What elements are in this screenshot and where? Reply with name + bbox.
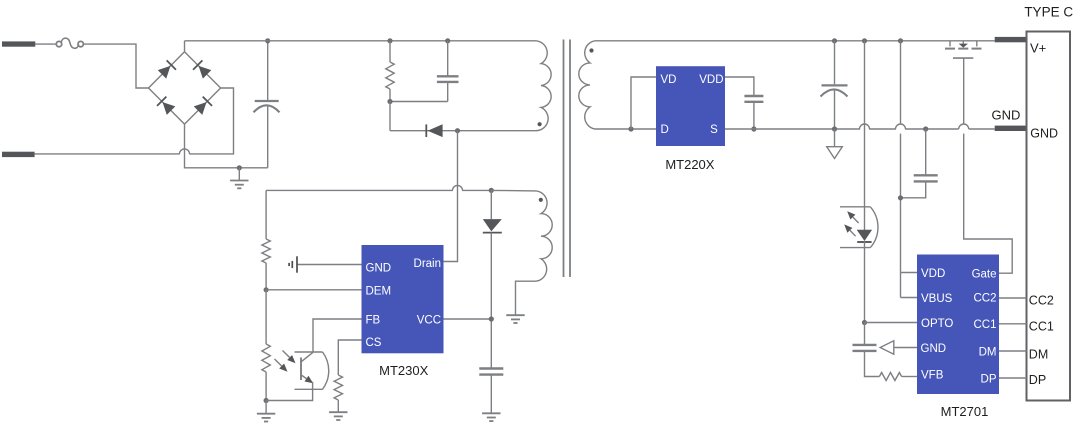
MOSFET Q1 output switch xyxy=(945,41,982,58)
wire optocoupler emitter to ground rail xyxy=(266,382,313,401)
svg-text:CC1: CC1 xyxy=(1029,320,1054,334)
wire bridge bottom to primary ground rail xyxy=(185,124,268,170)
TYPE C connector box xyxy=(1027,32,1071,401)
wire secondary + rail xyxy=(595,40,995,42)
ground G8 signal (open triangle left) xyxy=(880,341,917,355)
wire gate net xyxy=(964,58,1013,273)
wire CC1 xyxy=(999,323,1027,325)
wire CS pin to Rcs xyxy=(338,340,361,375)
resistor R3 DEM lower xyxy=(262,290,270,401)
wire V+ line to optocoupler LED xyxy=(862,38,867,230)
IC U1 MT230X xyxy=(362,245,444,353)
wire aux-DEM line with hop over drain riser xyxy=(266,185,536,193)
svg-text:VD: VD xyxy=(661,74,677,86)
svg-text:GND: GND xyxy=(366,263,392,275)
svg-text:TYPE C: TYPE C xyxy=(1024,4,1073,19)
transformer T1 auxiliary winding xyxy=(536,191,552,281)
svg-text:MT220X: MT220X xyxy=(665,157,714,172)
resistor R5 VFB xyxy=(879,373,917,381)
ground G2 DEM divider xyxy=(257,398,275,422)
capacitor C3 VCC xyxy=(479,369,503,414)
svg-text:DP: DP xyxy=(981,374,997,386)
capacitor C7 feedback xyxy=(853,323,880,377)
transformer T1 secondary winding xyxy=(579,41,595,129)
wire AC N to bridge right vertex with crossover hop xyxy=(35,88,234,154)
svg-text:VDD: VDD xyxy=(921,268,945,280)
svg-text:MT230X: MT230X xyxy=(379,363,428,378)
primary winding polarity dot xyxy=(538,122,542,126)
optocoupler U2 phototransistor side xyxy=(275,351,329,390)
fuse F1 xyxy=(56,38,83,48)
svg-text:DEM: DEM xyxy=(366,285,392,297)
wire DEM pin xyxy=(264,287,362,292)
svg-text:S: S xyxy=(710,124,718,136)
aux winding polarity dot xyxy=(539,198,543,202)
label MT2701 xyxy=(941,404,989,419)
wire FB to optocoupler collector xyxy=(313,319,362,352)
svg-text:VDD: VDD xyxy=(699,74,723,86)
AC input terminal L xyxy=(2,41,35,46)
svg-text:CC1: CC1 xyxy=(973,319,996,331)
wire VDD pin to C4 xyxy=(725,77,754,95)
svg-text:CC2: CC2 xyxy=(1029,294,1054,308)
label MT230X xyxy=(379,363,428,378)
resistor R4 CS xyxy=(334,375,342,412)
wire Drain riser xyxy=(444,131,458,262)
capacitor C2 snubber xyxy=(437,38,459,101)
IC U3 MT220X xyxy=(656,66,725,146)
transformer T1 core xyxy=(564,40,571,278)
wire snubber row to transformer xyxy=(390,128,536,133)
ground G3 aux winding xyxy=(506,315,524,323)
wire primary + rail xyxy=(185,40,537,42)
wire aux winding to ground xyxy=(516,281,537,315)
svg-text:VFB: VFB xyxy=(921,370,944,382)
IC U4 MT2701 xyxy=(917,255,999,395)
svg-text:CC2: CC2 xyxy=(973,293,996,305)
wire fuse left lead xyxy=(35,43,56,45)
svg-text:CS: CS xyxy=(366,337,382,349)
svg-text:DM: DM xyxy=(1029,348,1048,362)
V+ terminal bar xyxy=(995,37,1028,42)
resistor R2 DEM upper xyxy=(262,190,270,289)
wire CC2 xyxy=(999,297,1027,299)
svg-text:VBUS: VBUS xyxy=(921,293,953,305)
svg-text:GND: GND xyxy=(992,108,1021,123)
transformer T1 primary winding xyxy=(536,41,551,131)
GND terminal bar xyxy=(995,126,1028,131)
svg-text:Gate: Gate xyxy=(972,269,997,281)
ground G5 at GND pin (rotated) xyxy=(289,256,297,272)
wire VD pin loop xyxy=(631,77,656,129)
svg-text:VCC: VCC xyxy=(417,314,441,326)
wire OPTO pin xyxy=(862,320,917,325)
capacitor C4 VDD decoupling xyxy=(744,96,763,132)
svg-text:GND: GND xyxy=(921,343,947,355)
ground G4 VCC cap xyxy=(482,413,500,421)
label TYPE C xyxy=(1024,4,1073,19)
capacitor C5 output electrolytic xyxy=(821,38,848,131)
wire VCC pin to VCC node xyxy=(444,316,494,321)
capacitor C6 VDD filter xyxy=(898,126,938,200)
AC input terminal N xyxy=(2,152,35,157)
ground G1 primary bulk xyxy=(230,168,248,189)
svg-text:V+: V+ xyxy=(1030,40,1046,55)
TYPE C pin labels xyxy=(1029,40,1058,387)
wire VDD-VBUS feed line xyxy=(898,38,903,297)
svg-text:DP: DP xyxy=(1029,373,1046,387)
wire GND pin xyxy=(297,264,362,266)
secondary winding polarity dot xyxy=(589,48,593,52)
wire VBUS pin stub xyxy=(901,297,918,299)
ground G6 CS xyxy=(329,412,347,420)
resistor R1 snubber xyxy=(386,38,394,101)
capacitor C1 bulk electrolytic xyxy=(254,38,280,168)
svg-text:D: D xyxy=(661,124,669,136)
optocoupler U2 LED side xyxy=(840,207,878,248)
svg-text:Drain: Drain xyxy=(414,258,441,270)
diode D1 snubber blocking xyxy=(426,124,442,137)
svg-text:FB: FB xyxy=(366,314,381,326)
wire secondary winding to D pin xyxy=(595,126,656,131)
ground G7 output (open triangle) xyxy=(827,129,843,159)
wire DM xyxy=(999,350,1027,352)
svg-text:MT2701: MT2701 xyxy=(941,404,989,419)
bridge rectifier BR1 xyxy=(149,41,221,124)
label MT220X xyxy=(665,157,714,172)
wire LED cathode to OPTO node xyxy=(864,242,866,323)
wire fuse to bridge AC node xyxy=(83,44,149,88)
wire S-GND rail with crossover hops xyxy=(725,124,995,129)
diode D2 VCC rectifier xyxy=(483,190,502,368)
svg-text:DM: DM xyxy=(979,347,997,359)
wire VDD pin stub xyxy=(901,272,918,274)
svg-text:GND: GND xyxy=(1030,126,1058,140)
wire snubber bottom link xyxy=(387,99,447,131)
wire DP xyxy=(999,377,1027,379)
label GND outer xyxy=(992,108,1021,123)
svg-text:OPTO: OPTO xyxy=(921,318,953,330)
